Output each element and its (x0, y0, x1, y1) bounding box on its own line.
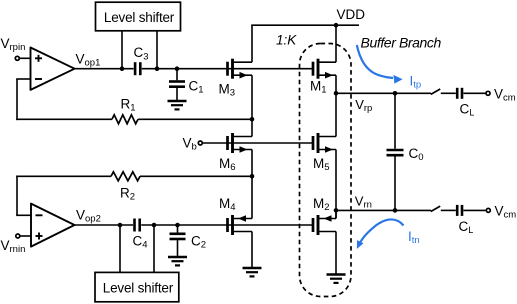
node Vrp at M1 (334, 91, 339, 96)
wire Vrn line (336, 209, 431, 211)
wire M3 source to M6 drain (251, 75, 253, 136)
wire Vb to M5 gate (202, 142, 313, 144)
wire M2 source to ground (335, 232, 337, 275)
transistor M2 (313, 196, 336, 235)
arrow Itp (blue) (357, 45, 403, 84)
wire R2 right segment (140, 175, 252, 177)
node R2-M6 junction (250, 174, 255, 179)
wire Vop2 line (C4 to M2 gate) (141, 224, 313, 226)
wire LS1 left leg (121, 31, 123, 69)
wire S2 to CL (441, 209, 456, 211)
capacitor C0 (387, 93, 424, 210)
arrow Itn (blue) (357, 219, 404, 248)
wire U1 +input (19, 57, 30, 59)
terminal Vcm (top) (486, 91, 490, 95)
wire U1 -input stub (16, 78, 30, 80)
op-amp U1 (31, 48, 75, 90)
op-amp U2 (31, 204, 75, 247)
wire R1 right segment (138, 118, 252, 120)
wire U2 +input (20, 235, 31, 237)
node LS2 left tap (118, 223, 123, 228)
wire M2 drain up to Vrn (335, 210, 337, 218)
svg-text:VDD: VDD (337, 7, 366, 22)
wire LS2 right leg (153, 225, 155, 272)
level shifter box LS1 (top) (96, 2, 181, 31)
wire LS1 right leg (156, 31, 158, 69)
resistor R2 (111, 172, 140, 181)
capacitor C4 (133, 219, 148, 251)
transistor M1 (310, 59, 336, 96)
ground under C2 (168, 257, 187, 265)
level shifter box LS2 (bottom) (95, 272, 179, 301)
wire R2 left segment (16, 175, 111, 177)
switch S2 (431, 206, 440, 211)
terminal Vrpin (15, 56, 19, 60)
wire S1 to CL (441, 92, 456, 94)
ground under C1 (168, 101, 187, 109)
wire M3 drain to rail (251, 25, 253, 62)
VDD rail (251, 24, 359, 26)
ground under M4 (243, 268, 262, 276)
wire M5 source to M2 drain (335, 150, 337, 219)
wire M1 source to M5 drain (335, 75, 337, 136)
node Vrn at C0 (393, 208, 398, 213)
svg-text:Level shifter: Level shifter (104, 10, 175, 25)
svg-text:Buffer Branch: Buffer Branch (361, 34, 442, 50)
terminal Vcm (bottom) (486, 208, 490, 212)
node C1 tap (175, 66, 180, 71)
wire U2 -input stub (16, 214, 31, 216)
node VDD junction (334, 23, 339, 28)
node C2 tap (175, 223, 180, 228)
wire U1 feedback vertical (16, 79, 18, 120)
node Vrn at M2 (334, 208, 339, 213)
transistor M4 (219, 196, 252, 235)
resistor R1 (112, 115, 138, 124)
transistor M3 (219, 59, 253, 99)
terminal Vb (198, 141, 202, 145)
wire U2 feedback vertical (16, 176, 18, 216)
wire Vop2 line (opamp to C4) (75, 224, 134, 226)
wire Vop1 line (opamp to C3) (75, 68, 134, 70)
node Vrp at C0 (393, 91, 398, 96)
capacitor C3 (134, 45, 149, 75)
wire M6 source to M4 drain (251, 150, 253, 219)
wire Vrp line (336, 92, 431, 94)
wire Vop1 line (C3 to M1 gate) (142, 68, 313, 70)
wire LS2 left leg (119, 225, 121, 272)
terminal Vrnin (16, 234, 20, 238)
capacitor C2 (170, 225, 207, 257)
capacitor C1 (169, 69, 204, 101)
transistor M6 (219, 133, 252, 173)
dashed buffer branch outline (300, 44, 352, 297)
wire M4 source to ground (251, 232, 253, 268)
node R1-M3 junction (250, 117, 255, 122)
capacitor CL (top) (457, 88, 474, 118)
wire R1 left segment (16, 118, 112, 120)
svg-text:1:K: 1:K (276, 32, 297, 47)
wire CL to Vcm terminal (bottom) (463, 209, 485, 211)
transistor M5 (313, 133, 336, 173)
switch S1 (431, 89, 440, 94)
node LS1 left tap (120, 66, 125, 71)
node LS2 right tap (152, 223, 157, 228)
capacitor CL (bottom) (457, 205, 473, 235)
ground under M2 (327, 275, 346, 283)
svg-text:Level shifter: Level shifter (103, 281, 174, 296)
wire CL to Vcm terminal (top) (463, 92, 485, 94)
node LS1 right tap (155, 66, 160, 71)
wire M1 drain to rail (335, 25, 337, 62)
